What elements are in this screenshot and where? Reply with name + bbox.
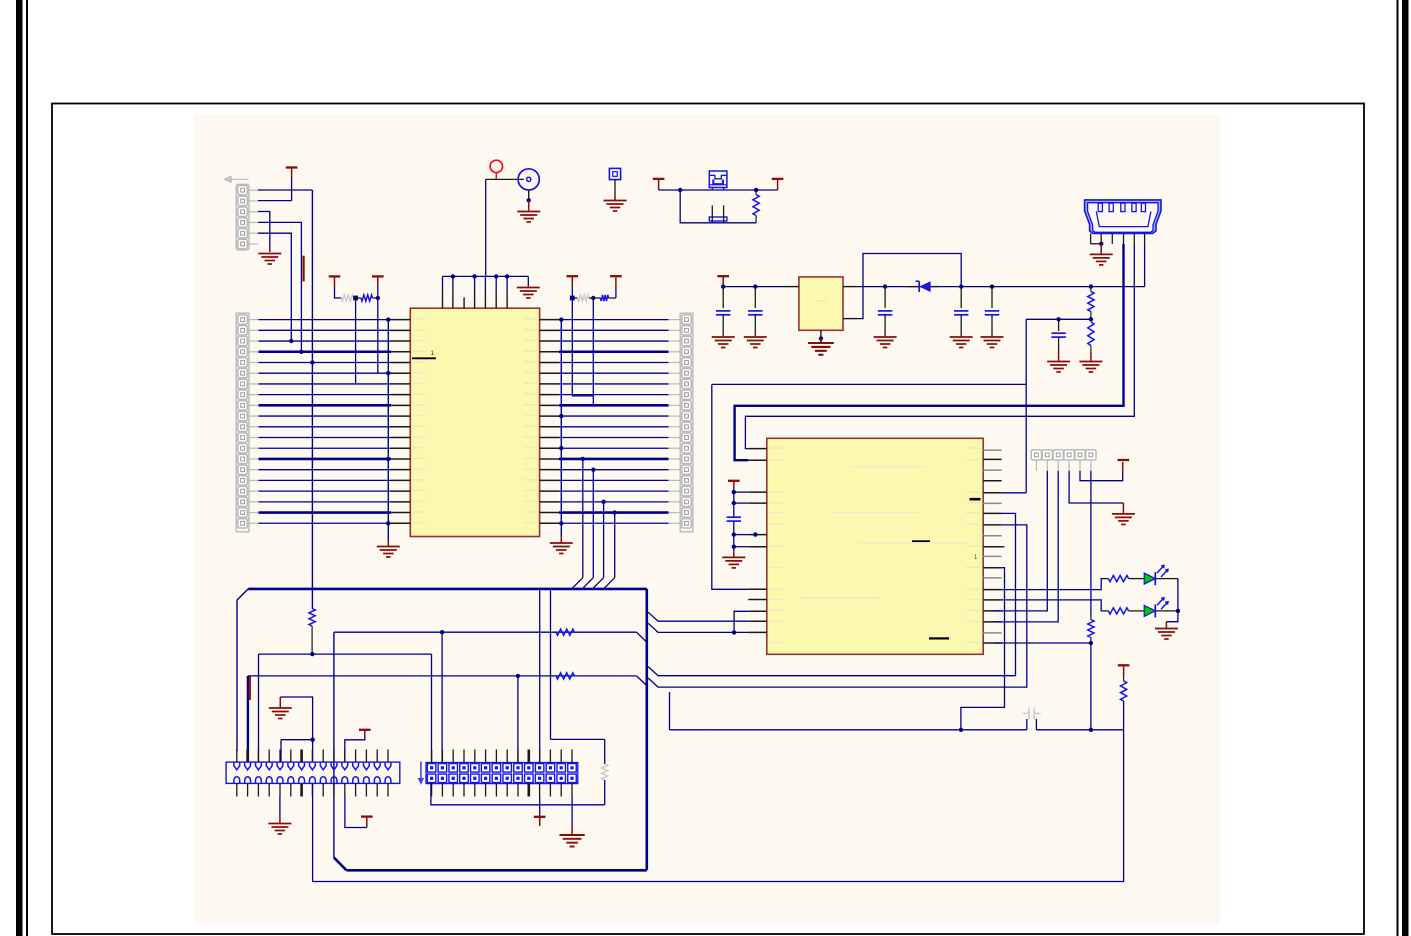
IC U1 internal labels — [413, 318, 537, 523]
bus bottom edge — [334, 858, 647, 871]
wire antenna — [486, 179, 524, 276]
power bar VCC U2 — [728, 481, 740, 492]
resistor R5 — [556, 629, 574, 635]
wire H2 p4 — [1069, 471, 1123, 514]
power bar VCC P2 — [345, 730, 371, 762]
IC U1 — [410, 308, 539, 536]
bus top edge — [248, 588, 647, 591]
resistor R11 — [1121, 677, 1127, 730]
node row3 dot — [289, 339, 293, 343]
wire LED2 out — [1155, 609, 1180, 613]
ground U2 cluster — [722, 547, 745, 568]
wire U2 row546 — [1002, 546, 1005, 548]
wire J2 pin6 to rail — [1144, 244, 1146, 287]
capacitor C8 gray — [1023, 708, 1041, 730]
wire RF to ground — [527, 190, 531, 211]
resistor RG2 gray — [578, 295, 590, 301]
wire R10 down — [1089, 643, 1093, 732]
wire U2 row643 — [994, 641, 1093, 645]
connector J1 6-pin header — [236, 184, 258, 250]
resistor R7 gray — [602, 739, 608, 804]
capacitor C1 — [716, 287, 730, 337]
bus exit E1 — [648, 612, 748, 621]
wire W3 drop — [517, 676, 519, 763]
bus exit E3 — [648, 513, 1015, 675]
wire A horizontal — [712, 383, 1026, 385]
wire W2 — [259, 652, 432, 656]
wire H2 p2 — [994, 471, 1048, 611]
wire U2 row611 — [732, 611, 748, 634]
red net segment — [303, 256, 305, 282]
power bar VCC H2 — [1118, 459, 1130, 461]
wire gnd spur — [280, 697, 312, 740]
wire REG output rail — [857, 284, 1145, 288]
ground C5 — [981, 337, 1004, 348]
wire J1 pin3 — [258, 212, 270, 249]
node RG1 square — [353, 296, 361, 301]
resistor RG1 blue — [361, 295, 373, 301]
wire A drop — [712, 384, 749, 589]
wire H2 p6 — [1090, 471, 1092, 616]
gray arrow marker — [225, 176, 249, 182]
resistor R-XT — [753, 190, 759, 223]
LED D2 — [1144, 566, 1168, 586]
ground REG — [808, 343, 834, 355]
wire W3 — [248, 674, 646, 685]
diode D1 — [908, 281, 938, 292]
LED D3 — [1144, 598, 1168, 618]
bus exit E2 — [648, 623, 748, 632]
connector J2 mini-USB — [1085, 200, 1161, 234]
ground below U1 right — [550, 536, 573, 554]
wire REG input rail — [721, 284, 785, 288]
connector P2 bottom-left header — [226, 750, 400, 797]
U1 right pins and wires — [540, 320, 681, 524]
wire LED1 out — [1155, 579, 1178, 611]
wire LED1 feed — [1002, 579, 1109, 590]
wire H2 p5 — [1080, 462, 1123, 481]
connector P3 bottom-right header — [426, 750, 578, 797]
wire J1 pin1 vertical — [311, 190, 313, 609]
wire XT loop — [680, 190, 756, 223]
node RG2 dot — [589, 296, 601, 300]
test pad TP1 — [609, 168, 620, 179]
ground C1 — [712, 337, 735, 348]
ground J2 — [1090, 254, 1113, 265]
resistor R3 — [1088, 322, 1094, 361]
power bar P3 bottom — [534, 797, 546, 827]
wire RG2 drop A — [572, 298, 593, 396]
power bar VCC RG1-right — [372, 276, 384, 298]
wire RG1 drop A — [355, 298, 357, 384]
ground TP1 — [604, 201, 627, 212]
IC U2 marks — [912, 498, 981, 640]
ground J1 pin3 — [258, 249, 281, 265]
ground below U1 left — [377, 540, 400, 557]
IC U1 pin1 mark — [412, 350, 436, 358]
power bar VCC XT-right — [772, 179, 784, 190]
capacitor C6 — [1051, 319, 1065, 361]
capacitor C4 — [954, 287, 968, 337]
wire J1 pin4 — [258, 222, 301, 351]
wire W3 left drop — [247, 676, 249, 762]
IC U2 internal labels — [769, 447, 980, 643]
wire bottom rail — [712, 728, 1124, 732]
crystal Y1 — [709, 171, 727, 190]
power bar VCC RG2-right — [609, 276, 622, 298]
resistor RG1 gray — [341, 295, 353, 301]
wire TP1 — [614, 180, 616, 200]
wire W1 — [334, 630, 646, 641]
capacitor C5 — [985, 287, 999, 337]
node R2 dot — [1089, 317, 1093, 321]
wire P3 wrap — [431, 739, 605, 804]
wire LED2 feed — [1002, 600, 1109, 611]
ground P2 — [268, 797, 291, 835]
U1 top pins — [443, 276, 508, 308]
connector P1 left 20-pin header — [236, 313, 249, 532]
wire C usb-data — [745, 244, 1134, 449]
wire U2 left cluster — [732, 490, 758, 549]
wire REG feedback loop — [857, 254, 961, 319]
power bar VCC R11 — [1118, 665, 1130, 677]
resistor RG2 blue — [601, 295, 609, 301]
bus left link — [333, 632, 335, 857]
bus top-left chamfer — [237, 589, 248, 751]
U2 left pin stubs — [748, 449, 767, 633]
ground U1 top-rail — [517, 276, 540, 298]
ground spur — [269, 697, 292, 719]
wire W2 drop — [431, 654, 433, 762]
power bar VCC RG2-left — [567, 276, 579, 295]
wire bottom long — [313, 730, 1124, 882]
IC U3 regulator — [785, 277, 857, 330]
connector P4 right 20-pin header — [680, 313, 693, 532]
wire W1 drop — [441, 632, 443, 762]
H2 pin stubs — [1036, 460, 1091, 471]
crystal Y2 — [709, 205, 727, 222]
ground C2 — [744, 337, 767, 348]
power bar P2 bottom — [345, 797, 373, 828]
power bar VCC REG — [717, 276, 729, 286]
resistor R2 — [1088, 287, 1094, 320]
J2 pins — [1091, 234, 1145, 244]
capacitor C7 — [727, 517, 741, 521]
wire REG gnd pin — [819, 330, 823, 342]
ground H2 p4 — [1112, 514, 1135, 525]
wire bottom rail stub — [670, 692, 712, 730]
arrow P3 — [418, 762, 424, 786]
power bar VCC J1 — [286, 168, 298, 201]
wire vert x1026 — [1025, 319, 1027, 493]
wire J2 gnd — [1091, 242, 1104, 254]
ground RF connector — [517, 212, 540, 223]
wire J1 pin2 — [258, 200, 292, 202]
node row5 dot — [310, 360, 314, 364]
resistor R8 — [1108, 576, 1144, 582]
ground C3 — [874, 337, 897, 348]
U1 left pins and wires — [249, 320, 410, 524]
wire bus col11 — [539, 590, 541, 762]
schematic sheet — [194, 114, 1220, 924]
header H2 6-pin — [1031, 450, 1096, 460]
wire U1 top rail — [443, 274, 529, 278]
wire vert x388 — [386, 317, 390, 540]
wire RG1 drop B — [377, 298, 379, 373]
resistor R9 — [1108, 608, 1144, 614]
red net segment 2 — [249, 677, 251, 701]
resistor R10 — [1088, 616, 1094, 643]
U2 right pin stubs — [983, 450, 1001, 643]
node RG1 dot — [373, 296, 380, 300]
page right border bars — [1397, 0, 1409, 936]
wire cap node — [1026, 317, 1091, 321]
resistor R4 — [309, 609, 315, 655]
node row4 dot — [299, 350, 303, 354]
wire J1 pin5 — [258, 233, 291, 341]
ground R3 — [1079, 362, 1102, 373]
wire bus col12 — [550, 590, 552, 739]
antenna terminal red circle — [490, 160, 502, 179]
IC U2 — [767, 438, 983, 654]
bus exit E4 — [648, 525, 1027, 687]
node RG2 square — [570, 296, 578, 301]
wire XT top — [659, 188, 778, 192]
wire U2 row567 — [961, 568, 1005, 730]
capacitor C2 — [748, 287, 762, 337]
ground C4 — [950, 337, 973, 348]
wire H2 p3 — [994, 471, 1058, 622]
wire W2 left drop — [258, 654, 260, 762]
wire U2 row492 — [1002, 492, 1027, 494]
ground C6 — [1047, 362, 1070, 373]
wire J1 pin1 — [258, 189, 312, 191]
capacitor C3 — [878, 287, 892, 337]
ground P3 — [559, 797, 584, 847]
wire vert x561 — [559, 317, 563, 536]
bus entry wires from U1 — [572, 457, 617, 589]
wire RG2 drop B — [592, 298, 594, 405]
ground LED — [1155, 629, 1178, 640]
resistor R6 — [556, 673, 574, 679]
wire B usb-data thick — [735, 244, 1124, 460]
RF connector blue circle — [518, 169, 539, 190]
page left border bars — [16, 0, 28, 936]
wire LED gnd — [1166, 611, 1178, 628]
wire header feed — [281, 738, 315, 763]
svg-text:1: 1 — [431, 350, 435, 357]
power bar VCC XT-left — [653, 179, 665, 190]
power bar VCC RG1-left — [329, 276, 342, 298]
bus right edge — [645, 589, 648, 870]
